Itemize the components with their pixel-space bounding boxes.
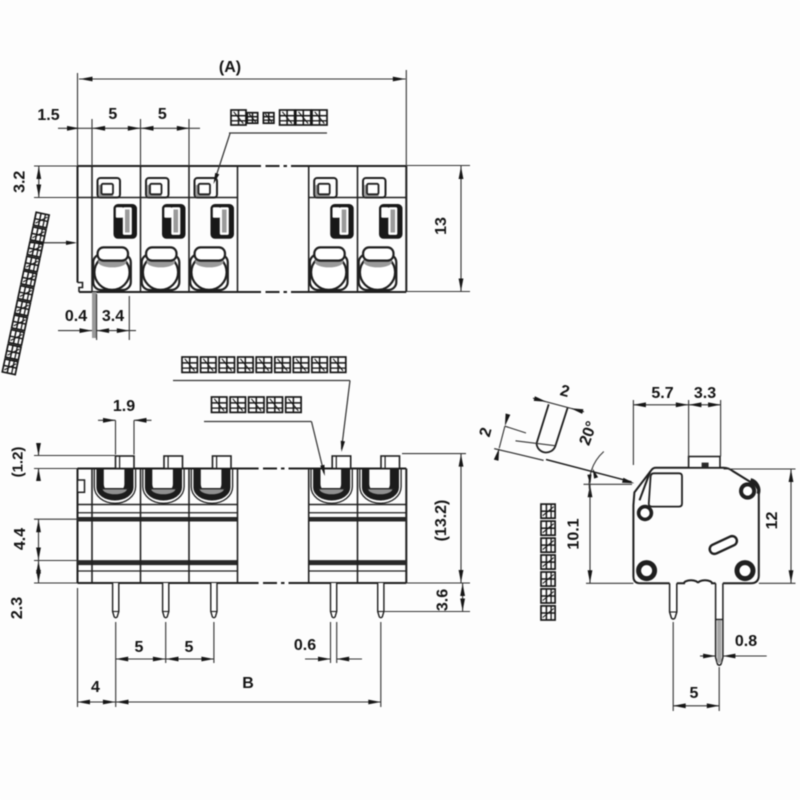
svg-text:12: 12 [764, 512, 781, 530]
svg-text:13: 13 [433, 217, 450, 235]
svg-text:5: 5 [690, 685, 699, 702]
svg-text:5: 5 [108, 106, 117, 123]
svg-text:2.3: 2.3 [9, 597, 26, 619]
svg-text:5: 5 [158, 106, 167, 123]
svg-text:3.6: 3.6 [435, 589, 452, 611]
svg-text:1.9: 1.9 [113, 398, 135, 415]
svg-text:(1.2): (1.2) [10, 447, 27, 478]
svg-text:10.1: 10.1 [566, 518, 583, 549]
svg-text:3.2: 3.2 [12, 171, 29, 193]
svg-text:0.6: 0.6 [294, 637, 316, 654]
svg-text:(A): (A) [219, 59, 241, 76]
svg-text:4.4: 4.4 [12, 528, 29, 550]
svg-text:5: 5 [134, 639, 143, 656]
svg-text:5.7: 5.7 [651, 385, 673, 402]
svg-text:3.4: 3.4 [102, 308, 124, 325]
svg-text:3.3: 3.3 [694, 385, 716, 402]
svg-text:1.5: 1.5 [37, 107, 59, 124]
svg-text:0.8: 0.8 [735, 633, 757, 650]
svg-text:B: B [242, 675, 254, 692]
svg-text:4: 4 [91, 679, 100, 696]
svg-text:0.4: 0.4 [65, 308, 87, 325]
svg-text:(13.2): (13.2) [433, 500, 450, 542]
svg-text:5: 5 [184, 639, 193, 656]
